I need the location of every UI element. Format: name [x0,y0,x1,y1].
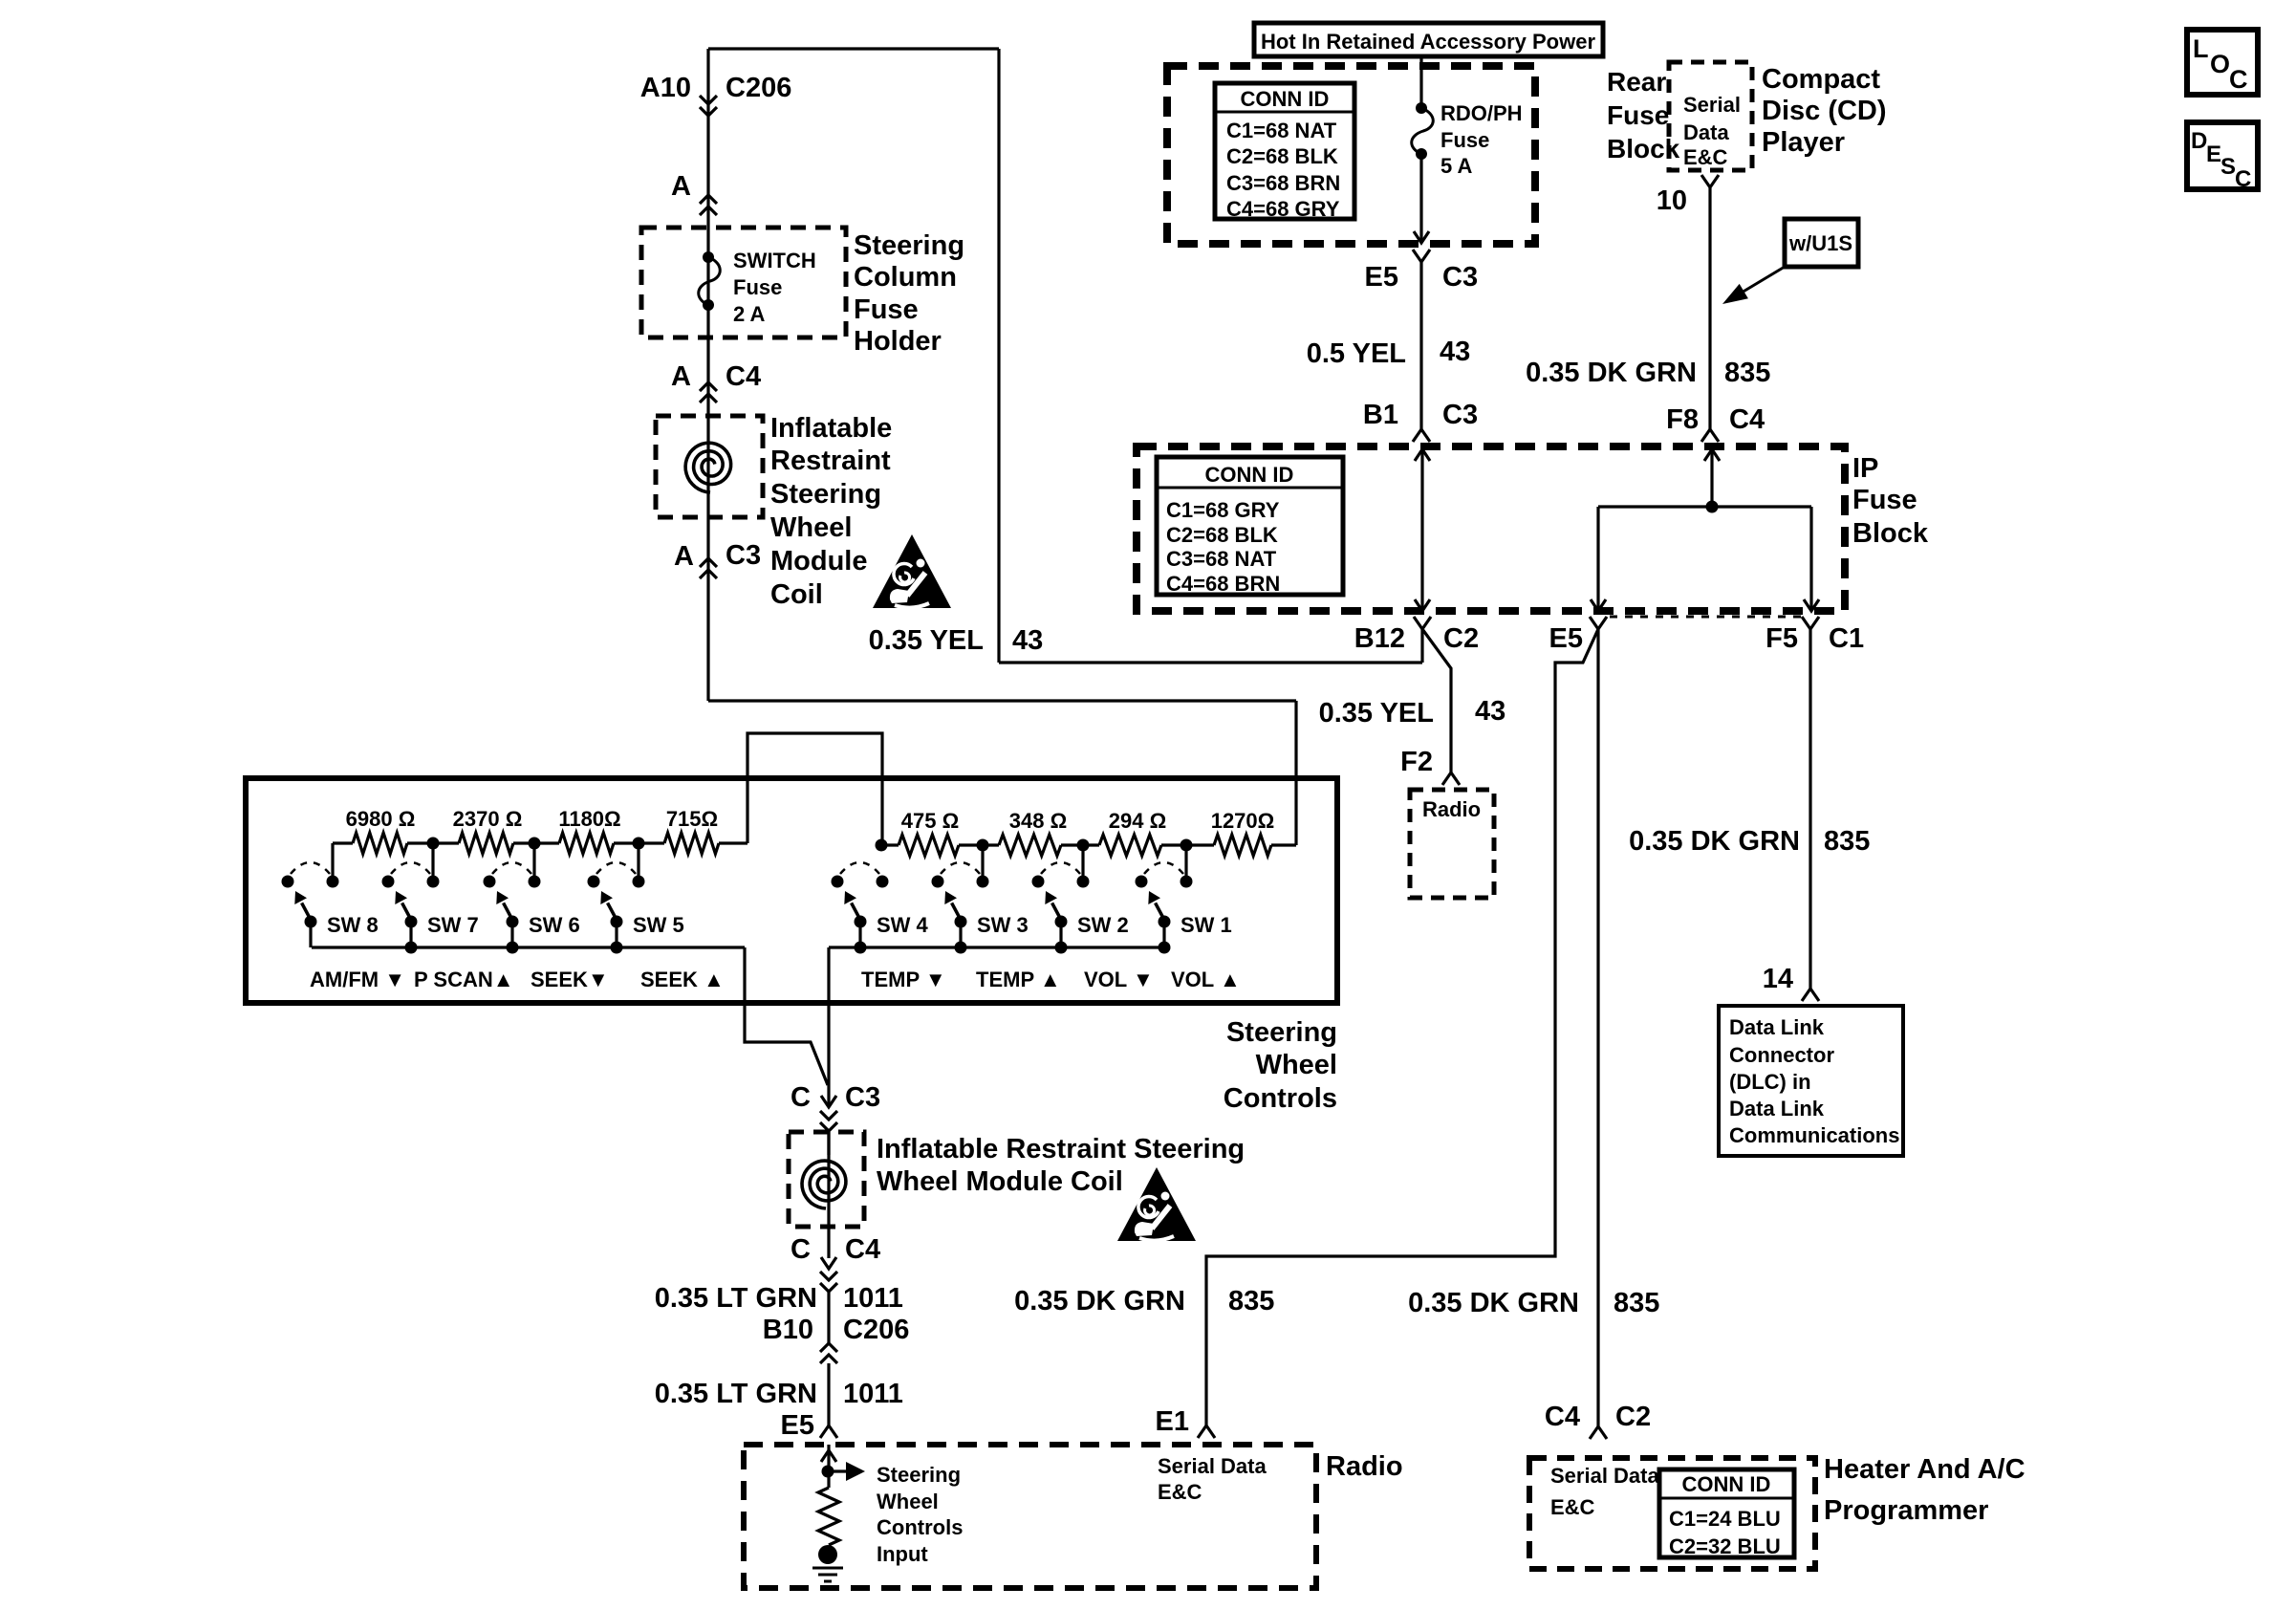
svg-text:C4=68 BRN: C4=68 BRN [1166,572,1280,596]
connector C4 pin A (up chevrons) [700,382,717,402]
svg-text:Heater And A/C: Heater And A/C [1824,1454,2025,1485]
svg-text:E1: E1 [1156,1406,1189,1437]
svg-text:Wheel Module Coil: Wheel Module Coil [877,1166,1123,1197]
label P SCAN up [414,968,514,991]
resistor 715 ohm [639,833,747,854]
svg-text:SWITCH: SWITCH [733,249,816,272]
junction dot bus SW5 [611,942,623,954]
wire stub SW1 tap [1184,845,1187,876]
wire stub SW5 tap [637,843,639,876]
wire stub SW7 tap [431,843,434,876]
svg-text:E&C: E&C [1158,1480,1202,1504]
svg-text:Steering: Steering [770,479,881,510]
junction dot bus SW2 [1055,942,1068,954]
junction dot SW5 tap [633,838,645,850]
hot in retained accessory power box [1254,23,1603,56]
svg-text:0.35 DK GRN: 0.35 DK GRN [1408,1288,1579,1318]
svg-text:C: C [791,1082,811,1113]
svg-text:E&C: E&C [1683,145,1728,169]
svg-text:L: L [2193,34,2209,63]
label 835 (heater) [1614,1288,1659,1318]
svg-text:C4=68 GRY: C4=68 GRY [1226,197,1340,221]
SRS warning triangle 1 [873,534,951,608]
label AM/FM down [310,968,405,991]
svg-text:E5: E5 [1549,623,1583,654]
svg-text:Block: Block [1852,518,1929,549]
svg-text:P SCAN▲: P SCAN▲ [414,968,514,991]
inflatable restraint coil dashed box 1 [656,416,763,517]
svg-text:0.35 YEL: 0.35 YEL [1319,698,1434,729]
svg-text:SW 4: SW 4 [877,913,929,937]
label 1011 lower [843,1379,903,1409]
svg-text:C3=68 BRN: C3=68 BRN [1226,171,1340,195]
label B10 [763,1315,813,1345]
resistor radio input [818,1488,839,1545]
svg-text:294 Ω: 294 Ω [1109,809,1166,833]
resistor 6980 ohm [333,833,433,854]
svg-text:715Ω: 715Ω [666,807,718,831]
svg-text:O: O [2210,50,2230,78]
svg-text:Serial Data: Serial Data [1158,1454,1267,1478]
svg-text:F2: F2 [1400,747,1433,777]
label A at C4 [671,361,691,392]
junction dot SW2 tap [1077,839,1090,852]
label 0.5 YEL [1307,338,1406,369]
svg-text:Wheel: Wheel [877,1490,939,1513]
switch SW 5 [588,862,645,947]
serial data E&C dashed box (CD player) [1669,62,1752,170]
wire: E5 leg inside block [1591,507,1606,611]
label SW 5 [633,913,684,937]
svg-text:Serial: Serial [1683,93,1741,117]
w/U1S callout box [1785,219,1858,267]
label IP Fuse Block [1852,453,1929,549]
wire: 0.35 LT GRN 1011 lower [827,1363,830,1425]
conn id table heater [1659,1469,1794,1558]
label SWITCH [733,249,816,272]
svg-text:10: 10 [1657,185,1687,216]
svg-text:Radio: Radio [1422,797,1481,821]
svg-text:CONN ID: CONN ID [1241,87,1330,111]
svg-text:C3=68 NAT: C3=68 NAT [1166,547,1277,571]
label 0.35 YEL [869,625,984,656]
svg-text:C2: C2 [1615,1402,1651,1432]
label 835 (DLC) [1824,826,1870,857]
svg-text:Fuse: Fuse [1852,485,1917,515]
svg-text:1270Ω: 1270Ω [1211,809,1275,833]
junction dot inside IP block [1706,501,1719,513]
svg-text:SEEK▼: SEEK▼ [531,968,609,991]
svg-text:B10: B10 [763,1315,813,1345]
resistor 1180 ohm [534,833,639,854]
dotted variant line E5-F5 [1610,616,1803,619]
SRS warning triangle 2 [1117,1167,1196,1241]
junction dot bus SW4 [855,942,867,954]
svg-text:C1=24 BLU: C1=24 BLU [1669,1507,1781,1531]
junction dot bus SW6 [507,942,519,954]
wire: right switch bus [829,946,1164,948]
data link connector box [1719,1006,1903,1156]
label C4 [726,361,761,392]
label Serial Data E&C (heater) [1550,1464,1659,1519]
label SW 8 [327,913,379,937]
svg-text:43: 43 [1012,625,1043,656]
junction dot bus SW7 [405,942,418,954]
wire: jumper over box top [747,733,882,845]
svg-text:Wheel: Wheel [1256,1050,1337,1080]
switch SW 7 [382,862,440,947]
label Steering Wheel Controls Input [877,1463,963,1566]
IP fuse block dashed box [1137,446,1845,611]
svg-text:SW 5: SW 5 [633,913,684,937]
wire: E5 straight to heater C2 [1596,629,1599,1426]
connector CD player pin 10 (female) [1701,175,1719,187]
svg-text:Fuse: Fuse [733,275,782,299]
label B1 [1363,400,1398,430]
label w/U1S [1788,231,1852,255]
wire: coil C drop into controls box [1294,701,1297,845]
fuse RDO/PH 5A symbol [1412,102,1434,160]
label Inflatable Restraint Steering Wheel Module Coil (2) [877,1134,1245,1197]
svg-text:Wheel: Wheel [770,512,852,543]
svg-text:Player: Player [1762,127,1845,158]
label C1 at F5 [1829,623,1864,654]
svg-text:E5: E5 [781,1410,814,1441]
svg-text:1011: 1011 [843,1379,903,1409]
resistor 475 ohm [882,835,983,856]
svg-text:C2=32 BLU: C2=32 BLU [1669,1534,1781,1558]
svg-text:C2=68 BLK: C2=68 BLK [1226,144,1338,168]
svg-text:Fuse: Fuse [854,294,919,325]
svg-text:C206: C206 [843,1315,909,1345]
connector DLC pin 14 (female) [1802,989,1819,1001]
svg-text:835: 835 [1824,826,1870,857]
svg-text:5 A: 5 A [1440,154,1473,178]
label F2 [1400,747,1433,777]
connector C206 pin B10 (up chevrons) [820,1343,837,1363]
svg-text:C2: C2 [1443,623,1479,654]
svg-text:SEEK ▲: SEEK ▲ [640,968,725,991]
svg-text:SW 6: SW 6 [529,913,580,937]
wire: left bus exit jog [745,947,828,1085]
switch SW 8 [282,862,339,947]
svg-text:SW 3: SW 3 [977,913,1029,937]
svg-text:Controls: Controls [1224,1083,1337,1114]
svg-text:Hot In Retained Accessory Powe: Hot In Retained Accessory Power [1261,30,1596,54]
svg-text:14: 14 [1763,964,1793,994]
svg-text:SW 7: SW 7 [427,913,479,937]
junction dot bus SW1 [1159,942,1171,954]
wire: left switch bus [312,946,745,948]
svg-text:Inflatable: Inflatable [770,413,892,444]
svg-text:Fuse: Fuse [1607,100,1669,130]
label 835 (CD) [1724,358,1770,388]
svg-text:C2=68 BLK: C2=68 BLK [1166,523,1278,547]
wire: B1 to B12 inside block [1415,449,1430,611]
resistor 2370 ohm [433,833,534,854]
label A (terminal) [671,171,691,202]
svg-text:6980 Ω: 6980 Ω [346,807,416,831]
label C4 at heater [1545,1402,1580,1432]
LOC button box [2187,30,2258,95]
svg-text:Coil: Coil [770,579,823,610]
svg-text:E5: E5 [1365,262,1398,293]
svg-text:VOL ▼: VOL ▼ [1084,968,1154,991]
svg-text:B1: B1 [1363,400,1398,430]
svg-text:Data Link: Data Link [1729,1097,1825,1120]
svg-text:Input: Input [877,1542,928,1566]
wire stub SW3 tap [981,845,984,876]
label Heater And A/C Programmer [1824,1454,2025,1526]
switch SW 1 [1136,862,1193,947]
connector IP pin F5 (female) [1802,617,1819,629]
label C2 at B12 [1443,623,1479,654]
wire: right bus drop to connector C [827,947,830,1107]
svg-text:Compact: Compact [1762,64,1880,95]
label Inflatable Restraint Steering Wheel Module Coil [770,413,892,610]
label E5 below block [1549,623,1583,654]
wire: fuse to block edge [1414,154,1429,243]
wire stub SW2 tap [1081,845,1084,876]
label C3 lower [845,1082,880,1113]
connector C3 pin A (up chevrons) [700,558,717,578]
label 43 (B12-F2) [1475,696,1505,727]
label Serial Data E&C (radio) [1158,1454,1267,1504]
label RDO/PH Fuse 5A [1440,101,1523,178]
wire: riser to fuse block pin B12 [1420,629,1423,663]
svg-text:CONN ID: CONN ID [1682,1472,1771,1496]
svg-text:1011: 1011 [843,1283,903,1314]
svg-text:C3: C3 [726,540,761,571]
ground node dot [818,1545,837,1564]
svg-text:C1=68 GRY: C1=68 GRY [1166,498,1280,522]
wire: 0.35 DK GRN 835 from CD [1708,187,1711,429]
svg-text:Module: Module [770,546,868,577]
svg-text:F8: F8 [1666,404,1699,435]
label TEMP up [976,968,1061,991]
svg-text:0.35 LT GRN: 0.35 LT GRN [655,1379,817,1409]
svg-text:0.35 YEL: 0.35 YEL [869,625,984,656]
label VOL down [1084,968,1154,991]
svg-text:C3: C3 [845,1082,880,1113]
junction dot SW7 tap [427,838,440,850]
svg-text:SW 1: SW 1 [1180,913,1232,937]
conn id table rear fuse block [1215,83,1354,221]
svg-text:C3: C3 [1442,262,1478,293]
label 0.35 YEL (B12-F2) [1319,698,1434,729]
heater and AC programmer dashed box [1529,1458,1815,1569]
label 2370 ohm [453,807,523,831]
label B12 [1354,623,1405,654]
label Steering Wheel Controls [1224,1017,1337,1114]
svg-text:C3: C3 [1442,400,1478,430]
label SW 6 [529,913,580,937]
switch SW 6 [484,862,541,947]
connector IP block pin B1 (female) [1413,429,1430,442]
label C at C4 [791,1234,811,1265]
junction dot SW6 tap [529,838,541,850]
label 1011 upper [843,1283,903,1314]
svg-text:w/U1S: w/U1S [1788,231,1852,255]
svg-text:AM/FM ▼: AM/FM ▼ [310,968,405,991]
wire: C to coil 2 [827,1131,830,1155]
label Fuse [733,275,782,299]
connector IP pin B12 (female) [1414,617,1431,629]
wire: radio input stub [821,1445,836,1488]
label 1270 ohm [1211,809,1275,833]
label 0.35 LT GRN upper [655,1283,817,1314]
connector heater pin C2 (female) [1590,1426,1607,1439]
label 14 [1763,964,1793,994]
label 0.35 DK GRN (heater) [1408,1288,1579,1318]
radio small dashed box [1410,790,1494,898]
svg-text:Disc (CD): Disc (CD) [1762,96,1887,126]
svg-text:SW 8: SW 8 [327,913,379,937]
label 294 ohm [1109,809,1166,833]
svg-text:Data Link: Data Link [1729,1015,1825,1039]
label A10 [640,73,691,103]
svg-text:VOL ▲: VOL ▲ [1171,968,1241,991]
label SEEK up [640,968,725,991]
label 43 at 0.5 YEL [1440,337,1470,367]
label 475 ohm [901,809,959,833]
label TEMP down [861,968,946,991]
label 348 ohm [1009,809,1067,833]
svg-text:Column: Column [854,262,957,293]
coil spiral symbol 1 [685,443,731,492]
label F8 [1666,404,1699,435]
svg-text:A: A [671,361,691,392]
connector rear block pin E5 (female) [1413,250,1430,262]
wire: F5 leg inside block [1804,507,1819,611]
svg-text:43: 43 [1475,696,1505,727]
label Compact Disc (CD) Player [1762,64,1887,158]
rear fuse block dashed box [1167,66,1535,244]
label 0.35 LT GRN lower [655,1379,817,1409]
svg-text:C: C [2235,166,2251,192]
label C2 at heater [1615,1402,1651,1432]
svg-text:C: C [791,1234,811,1265]
label A at C3 [674,541,694,572]
wire: B12 to F2 radio [1422,629,1451,772]
svg-text:2370 Ω: 2370 Ω [453,807,523,831]
label 43 (circuit) [1012,625,1043,656]
switch SW 4 [832,862,889,947]
svg-text:C1=68 NAT: C1=68 NAT [1226,119,1337,142]
svg-text:348 Ω: 348 Ω [1009,809,1067,833]
label SW 1 [1180,913,1232,937]
connector C3 pin C (arrow + chevrons) [820,1096,837,1131]
svg-text:E&C: E&C [1550,1495,1595,1519]
svg-text:Data: Data [1683,120,1729,144]
svg-text:C4: C4 [1545,1402,1580,1432]
label SW 7 [427,913,479,937]
label C at C3 [791,1082,811,1113]
wire: through coil 2 [827,1132,830,1258]
steering column fuse holder dashed box [641,228,846,337]
svg-text:Inflatable Restraint Steering: Inflatable Restraint Steering [877,1134,1245,1164]
connector C206 pin A10 (in-line, down chevrons) [700,96,717,116]
svg-text:TEMP ▲: TEMP ▲ [976,968,1061,991]
svg-text:CONN ID: CONN ID [1205,463,1294,487]
connector IP pin E5 (female) [1590,617,1607,629]
label Steering Column Fuse Holder [854,230,964,357]
svg-text:S: S [2220,154,2236,180]
DESC button box [2187,122,2258,192]
svg-text:835: 835 [1724,358,1770,388]
conn id table IP fuse block [1157,457,1343,596]
label SW 2 [1077,913,1129,937]
label 6980 ohm [346,807,416,831]
label 835 (E1) [1228,1286,1274,1316]
label Radio (small box) [1422,797,1481,821]
svg-text:Steering: Steering [1226,1017,1337,1048]
label 0.35 DK GRN (DLC) [1629,826,1800,857]
connector radio pin F2 (female) [1442,772,1460,785]
svg-text:TEMP ▼: TEMP ▼ [861,968,946,991]
svg-text:Steering: Steering [854,230,964,261]
wire: 0.35 YEL 43 horizontal to B12 [999,661,1422,664]
inflatable restraint coil dashed box 2 [789,1132,864,1227]
resistor 1270 ohm [1186,835,1296,856]
svg-text:E: E [2206,141,2221,167]
junction dot SW3 tap [977,839,989,852]
svg-text:0.35 DK GRN: 0.35 DK GRN [1526,358,1697,388]
connector radio pin E1 (female) [1198,1425,1215,1438]
svg-text:C206: C206 [726,73,791,103]
svg-text:Connector: Connector [1729,1043,1834,1067]
svg-text:0.35 LT GRN: 0.35 LT GRN [655,1283,817,1314]
label SEEK down [531,968,609,991]
label SW 3 [977,913,1029,937]
label C206 [726,73,791,103]
label F5 [1765,623,1798,654]
switch SW 3 [932,862,989,947]
svg-text:F5: F5 [1765,623,1798,654]
radio dashed box [744,1445,1316,1588]
junction dot SW1 tap [1180,839,1193,852]
label 0.35 DK GRN (CD) [1526,358,1697,388]
svg-text:B12: B12 [1354,623,1405,654]
connector radio pin E5 (female) [820,1425,837,1438]
svg-text:835: 835 [1614,1288,1659,1318]
wire: F8 feed inside block [1704,449,1720,507]
svg-text:Holder: Holder [854,326,942,357]
wire: F5 to DLC [1809,629,1811,989]
svg-text:Programmer: Programmer [1824,1495,1988,1526]
svg-text:Rear: Rear [1607,67,1666,97]
label C3 at E5 [1442,262,1478,293]
label E5 radio pin [781,1410,814,1441]
label 10 [1657,185,1687,216]
connector C4 pin C (arrow + chevrons) [820,1257,837,1292]
label Radio (big) [1326,1451,1403,1482]
svg-text:Restraint: Restraint [770,446,891,476]
svg-text:IP: IP [1852,453,1878,484]
switch SW 2 [1032,862,1090,947]
label SW 4 [877,913,929,937]
svg-text:D: D [2191,128,2207,154]
label C4 at F8 [1729,404,1765,435]
svg-text:0.5 YEL: 0.5 YEL [1307,338,1406,369]
junction dot 475 left [876,839,888,852]
wire: E5 jog to E1 riser [1206,629,1598,1425]
svg-text:C4: C4 [726,361,761,392]
label 1180 ohm [558,807,620,831]
svg-text:C: C [2229,65,2248,94]
svg-text:C4: C4 [1729,404,1765,435]
svg-text:A: A [674,541,694,572]
